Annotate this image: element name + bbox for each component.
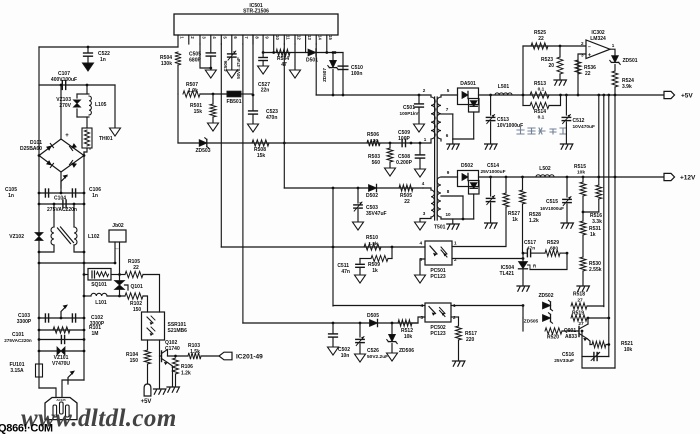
svg-text:4: 4 bbox=[419, 241, 422, 246]
svg-text:15k: 15k bbox=[194, 109, 203, 115]
svg-text:R519: R519 bbox=[572, 310, 584, 316]
svg-text:10k: 10k bbox=[404, 334, 413, 340]
svg-text:10k: 10k bbox=[577, 170, 585, 176]
svg-text:560: 560 bbox=[372, 160, 381, 166]
svg-text:A833: A833 bbox=[565, 334, 577, 340]
svg-text:22: 22 bbox=[585, 71, 591, 77]
svg-text:THI01: THI01 bbox=[99, 136, 113, 142]
svg-text:C517: C517 bbox=[524, 240, 536, 246]
svg-text:4: 4 bbox=[422, 181, 425, 186]
svg-text:AC125: AC125 bbox=[56, 398, 66, 402]
svg-text:35V47uF: 35V47uF bbox=[366, 211, 387, 217]
svg-text:680P: 680P bbox=[189, 58, 201, 64]
svg-text:TL421: TL421 bbox=[500, 271, 515, 277]
svg-text:L105: L105 bbox=[95, 102, 107, 108]
svg-text:L502: L502 bbox=[539, 166, 551, 172]
svg-text:100P: 100P bbox=[398, 136, 410, 142]
svg-text:680: 680 bbox=[550, 246, 558, 252]
svg-text:100n: 100n bbox=[351, 71, 362, 77]
svg-text:4: 4 bbox=[420, 303, 423, 308]
svg-text:10n: 10n bbox=[341, 353, 350, 359]
svg-text:400V100uF: 400V100uF bbox=[51, 77, 77, 83]
svg-text:12: 12 bbox=[296, 35, 301, 40]
svg-text:1: 1 bbox=[453, 303, 456, 308]
svg-text:R520: R520 bbox=[547, 335, 559, 341]
svg-text:C514: C514 bbox=[487, 163, 499, 169]
svg-text:SQ101: SQ101 bbox=[91, 282, 107, 288]
svg-text:C104: C104 bbox=[54, 196, 66, 202]
svg-text:−: − bbox=[588, 44, 591, 50]
svg-text:470n: 470n bbox=[266, 115, 277, 121]
svg-text:47n: 47n bbox=[341, 269, 350, 275]
svg-text:C506: C506 bbox=[223, 60, 228, 71]
svg-text:ZD502: ZD502 bbox=[538, 293, 553, 299]
svg-text:150: 150 bbox=[133, 307, 142, 313]
svg-text:9: 9 bbox=[447, 170, 450, 175]
svg-text:0.1: 0.1 bbox=[538, 115, 545, 121]
svg-text:3: 3 bbox=[423, 211, 426, 216]
svg-text:3.9k: 3.9k bbox=[622, 84, 632, 90]
svg-text:20: 20 bbox=[548, 63, 554, 69]
svg-text:15k: 15k bbox=[257, 153, 266, 159]
svg-text:3.3k: 3.3k bbox=[592, 219, 602, 225]
svg-text:1n: 1n bbox=[8, 193, 14, 199]
svg-text:T501: T501 bbox=[434, 225, 446, 231]
svg-text:Jb02: Jb02 bbox=[112, 223, 124, 229]
svg-text:27: 27 bbox=[577, 297, 583, 303]
svg-text:0.1: 0.1 bbox=[538, 87, 545, 93]
svg-text:C516: C516 bbox=[562, 352, 574, 358]
svg-text:R515: R515 bbox=[574, 164, 586, 170]
svg-text:IC201-49: IC201-49 bbox=[236, 354, 263, 361]
svg-text:14: 14 bbox=[318, 35, 323, 40]
svg-text:22n: 22n bbox=[261, 88, 270, 94]
svg-text:C512: C512 bbox=[573, 118, 585, 124]
svg-text:STR-Z1506: STR-Z1506 bbox=[243, 9, 269, 15]
svg-text:10k: 10k bbox=[624, 347, 633, 353]
svg-text:7: 7 bbox=[446, 107, 449, 112]
svg-text:PC123: PC123 bbox=[430, 274, 446, 280]
svg-text:15: 15 bbox=[328, 35, 333, 40]
svg-text:22: 22 bbox=[538, 36, 544, 42]
svg-text:50V0.47uF: 50V0.47uF bbox=[236, 57, 241, 79]
svg-text:1n: 1n bbox=[100, 57, 106, 63]
svg-text:220: 220 bbox=[466, 337, 475, 343]
svg-text:16V1000uF: 16V1000uF bbox=[540, 206, 564, 211]
svg-text:275VAC220n: 275VAC220n bbox=[47, 207, 77, 213]
svg-text:R513: R513 bbox=[534, 81, 546, 87]
svg-text:47n: 47n bbox=[527, 246, 535, 252]
svg-text:1k: 1k bbox=[512, 217, 518, 223]
svg-text:L501: L501 bbox=[498, 84, 510, 90]
svg-text:L101: L101 bbox=[95, 300, 107, 306]
svg-text:+: + bbox=[588, 53, 591, 59]
svg-text:1.9k: 1.9k bbox=[188, 88, 198, 94]
svg-text:D505: D505 bbox=[367, 313, 379, 319]
svg-text:22: 22 bbox=[133, 265, 139, 271]
svg-text:0.200P: 0.200P bbox=[396, 160, 413, 166]
svg-text:5: 5 bbox=[447, 88, 450, 93]
svg-text:R506: R506 bbox=[367, 132, 379, 138]
svg-text:1: 1 bbox=[612, 43, 615, 48]
svg-text:130k: 130k bbox=[161, 61, 172, 67]
svg-text:13: 13 bbox=[307, 35, 312, 40]
svg-text:-: - bbox=[89, 147, 91, 153]
svg-text:1: 1 bbox=[454, 241, 457, 246]
svg-text:LM324: LM324 bbox=[590, 36, 606, 42]
svg-text:R106: R106 bbox=[181, 364, 193, 370]
svg-text:1n: 1n bbox=[92, 193, 98, 199]
svg-text:ZD501: ZD501 bbox=[623, 58, 638, 64]
svg-text:↔: ↔ bbox=[115, 246, 120, 252]
svg-text:ZD507: ZD507 bbox=[322, 68, 327, 82]
svg-text:R529: R529 bbox=[547, 240, 559, 246]
svg-text:1M: 1M bbox=[92, 331, 99, 337]
svg-text:1.2k: 1.2k bbox=[529, 218, 539, 224]
svg-text:C526: C526 bbox=[367, 348, 379, 354]
svg-text:C515: C515 bbox=[546, 199, 558, 205]
svg-text:D502: D502 bbox=[461, 163, 473, 169]
svg-text:1.5k: 1.5k bbox=[368, 241, 378, 247]
svg-text:ZD506: ZD506 bbox=[399, 348, 414, 354]
svg-text:3: 3 bbox=[581, 53, 584, 58]
svg-text:D502: D502 bbox=[366, 193, 378, 199]
svg-text:11: 11 bbox=[286, 35, 291, 40]
svg-text:150: 150 bbox=[130, 358, 139, 364]
svg-text:2: 2 bbox=[454, 257, 457, 262]
svg-text:25V33uF: 25V33uF bbox=[554, 358, 574, 364]
svg-text:Q101: Q101 bbox=[131, 284, 143, 290]
svg-text:6: 6 bbox=[446, 133, 449, 138]
svg-text:22: 22 bbox=[404, 199, 410, 205]
svg-text:3: 3 bbox=[420, 315, 423, 320]
svg-text:Q866!·C0M: Q866!·C0M bbox=[0, 423, 53, 434]
svg-text:25V1000uF: 25V1000uF bbox=[480, 169, 505, 175]
svg-text:1: 1 bbox=[424, 137, 427, 142]
svg-text:8: 8 bbox=[447, 189, 450, 194]
svg-text:1.5k: 1.5k bbox=[190, 349, 200, 355]
svg-text:S21MB6: S21MB6 bbox=[168, 328, 188, 334]
svg-text:VZ102: VZ102 bbox=[9, 234, 24, 240]
svg-text:R514: R514 bbox=[534, 109, 546, 115]
svg-text:275VAC220n: 275VAC220n bbox=[4, 338, 32, 343]
svg-text:R510: R510 bbox=[366, 235, 378, 241]
svg-text:+: + bbox=[65, 133, 69, 139]
svg-text:3300P: 3300P bbox=[17, 319, 32, 325]
svg-text:2: 2 bbox=[581, 41, 584, 46]
svg-text:L102: L102 bbox=[88, 234, 100, 240]
svg-text:ZD503: ZD503 bbox=[195, 148, 210, 154]
svg-text:130: 130 bbox=[370, 138, 378, 144]
svg-text:DA501: DA501 bbox=[460, 81, 476, 87]
svg-text:FB501: FB501 bbox=[226, 99, 241, 105]
svg-text:1k: 1k bbox=[372, 268, 378, 274]
svg-text:10V470uF: 10V470uF bbox=[573, 124, 595, 130]
svg-text:100P1kV: 100P1kV bbox=[400, 111, 420, 116]
svg-text:R518: R518 bbox=[573, 292, 585, 298]
svg-text:10: 10 bbox=[445, 212, 451, 217]
svg-text:1k: 1k bbox=[590, 232, 596, 238]
svg-text:D25BA60: D25BA60 bbox=[20, 146, 42, 152]
svg-text:1.2k: 1.2k bbox=[181, 371, 191, 377]
svg-text:2: 2 bbox=[423, 88, 426, 93]
svg-text:PC123: PC123 bbox=[430, 331, 446, 337]
svg-text:+12V: +12V bbox=[680, 175, 696, 182]
svg-text:10: 10 bbox=[275, 35, 280, 40]
svg-text:V7470U: V7470U bbox=[52, 361, 70, 367]
svg-text:+5V: +5V bbox=[681, 93, 693, 100]
svg-text:10V1000uF: 10V1000uF bbox=[497, 123, 523, 129]
svg-text:50V2.2uF: 50V2.2uF bbox=[367, 354, 388, 360]
svg-text:3.15A: 3.15A bbox=[10, 368, 24, 374]
svg-text:2.55k: 2.55k bbox=[589, 267, 602, 273]
svg-text:ZD505: ZD505 bbox=[524, 319, 539, 325]
